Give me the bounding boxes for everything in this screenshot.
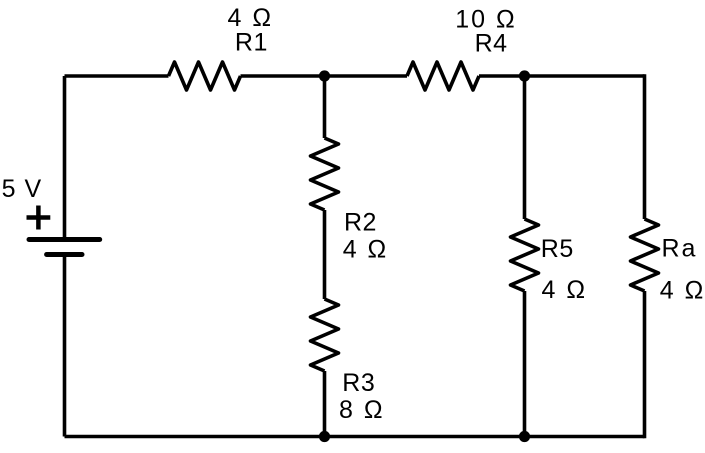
- wire left rail battery top lead: [63, 76, 67, 238]
- wire top rail left (battery to R1): [65, 74, 169, 78]
- wire bottom rail: [65, 435, 645, 439]
- wire node B down to R5: [523, 76, 527, 219]
- wire R3 to bottom node: [323, 371, 327, 437]
- wire Ra to bottom-right corner: [643, 291, 647, 438]
- battery V1 positive plate: [29, 237, 100, 242]
- svg-text:4 Ω: 4 Ω: [660, 277, 705, 305]
- svg-text:4 Ω: 4 Ω: [542, 276, 588, 304]
- svg-text:5 V: 5 V: [2, 175, 43, 203]
- wire R2 to R3: [323, 210, 327, 299]
- battery V1 negative plate: [47, 252, 82, 257]
- resistor R1: [169, 62, 241, 90]
- bottom node junction dot below R5: [519, 431, 530, 442]
- svg-text:R4: R4: [475, 30, 508, 58]
- wire R4 to node B: [479, 74, 525, 78]
- wire node B to top-right corner: [525, 74, 645, 78]
- svg-text:R2: R2: [344, 209, 377, 237]
- wire R1 to node A: [241, 74, 325, 78]
- resistor Ra: [631, 219, 659, 291]
- svg-text:R5: R5: [541, 235, 574, 263]
- resistor R5: [511, 219, 539, 291]
- resistor R3: [311, 299, 339, 371]
- svg-text:R1: R1: [235, 29, 268, 57]
- bottom node junction dot below R3: [319, 431, 330, 442]
- wire battery bottom lead: [63, 257, 67, 437]
- wire right rail down to Ra: [643, 74, 647, 219]
- battery plus sign: [27, 206, 51, 230]
- node A junction dot: [319, 70, 330, 81]
- svg-text:R3: R3: [342, 369, 375, 397]
- svg-text:8 Ω: 8 Ω: [339, 396, 385, 424]
- node B junction dot: [519, 70, 530, 81]
- resistor R4: [407, 62, 479, 90]
- svg-text:4 Ω: 4 Ω: [343, 236, 389, 264]
- svg-text:Ra: Ra: [662, 235, 698, 263]
- wire R5 to bottom node: [523, 291, 527, 437]
- wire node A to R4: [325, 74, 408, 78]
- wire node A down to R2: [323, 76, 327, 138]
- resistor R2: [311, 138, 339, 210]
